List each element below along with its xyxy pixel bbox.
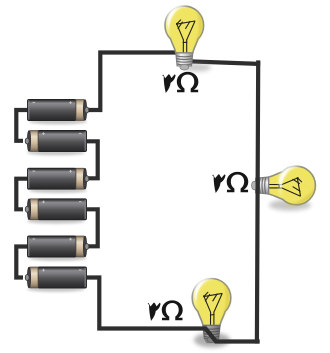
lamp L1 (top): [165, 5, 204, 70]
lamp L3 (bottom): [192, 277, 231, 343]
battery BT3 (positive right): [28, 168, 89, 193]
wire right connector between BT4 and BT5: [87, 209, 98, 246]
wire left connector between BT5 and BT6: [16, 247, 28, 278]
battery BT6 (positive left): [25, 267, 86, 292]
wire from battery BT1 positive terminal up to top-left corner and top-left horizontal run: [86, 53, 182, 111]
wire left connector between BT1 and BT2: [16, 110, 28, 141]
battery BT1 (positive right): [28, 100, 89, 125]
battery BT2 (positive left): [25, 131, 86, 156]
lamp L2 (right, horizontal): [252, 165, 320, 213]
label 3 ohm for lamp L1: [162, 72, 198, 93]
shadow of lamp L3: [194, 333, 230, 348]
battery BT4 (positive left): [25, 199, 86, 224]
wire left connector between BT3 and BT4: [16, 179, 28, 210]
label 3 ohm for lamp L3: [148, 300, 183, 321]
shadow of lamp L2: [269, 200, 311, 211]
wire right vertical run from top-right corner down to bottom-right corner: [257, 63, 258, 342]
shadow of lamp L1: [183, 63, 211, 71]
battery BT5 (positive right): [28, 236, 89, 261]
label 3 ohm for lamp L2: [212, 172, 248, 193]
wire top-right horizontal run from lamp L1 base to top-right corner: [190, 61, 258, 64]
wire from battery BT6 down the left side, along the bottom, stepping over lamp L3 base to bottom-right corner: [87, 278, 260, 342]
wire right connector between BT2 and BT3: [87, 141, 98, 178]
